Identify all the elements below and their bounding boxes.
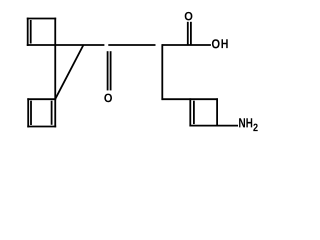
ring 3 right edge (216, 98, 218, 126)
ring 2 bottom edge (27, 126, 56, 128)
ketone C=O double bond line a (107, 51, 109, 90)
chain vertical bond down to ring 3 (161, 44, 163, 100)
atom label NH2 (amine) (239, 118, 258, 131)
atom label O (carboxyl) (185, 12, 193, 21)
ring 1 left edge (27, 18, 29, 46)
ketone C=O double bond line b (110, 51, 112, 90)
horizontal bond + ring 3 top edge (161, 98, 218, 100)
atom label O (ketone) (104, 94, 112, 103)
carboxyl C=O double bond line a (187, 22, 189, 45)
atom label OH (hydroxyl) (212, 39, 228, 48)
main chain horizontal bond segment 3 to carboxyl (162, 44, 211, 46)
ring 2 top edge (27, 98, 56, 100)
ring 3 double bond inner line (193, 101, 195, 124)
ring 3 left edge (189, 98, 191, 126)
ring 1 double bond inner line (30, 20, 32, 44)
carboxyl C=O double bond line b (190, 22, 192, 45)
ring 2 right double bond inner line (51, 101, 53, 125)
ring 1 / ring 2 shared right vertical bond (54, 18, 56, 128)
ring 1 top edge (27, 18, 56, 20)
diagonal bond (55, 45, 83, 99)
main chain horizontal bond segment 2 (108, 44, 155, 46)
ring 3 bottom edge + bond to NH2 (189, 125, 238, 127)
ring 2 left double bond inner line (30, 101, 32, 125)
main chain horizontal bond segment 1 (27, 44, 105, 46)
ring 2 left edge (27, 98, 29, 127)
